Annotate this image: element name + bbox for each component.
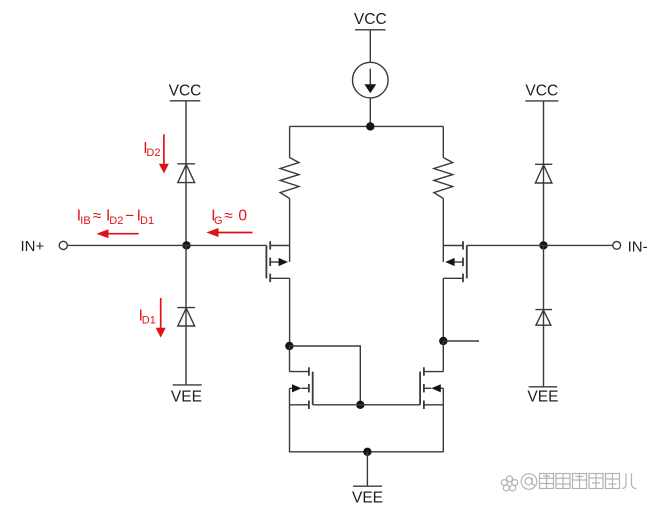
arrow IIB (red, left)	[96, 229, 139, 238]
svg-text:≈: ≈	[224, 208, 233, 225]
wire node to M3 drain	[289, 346, 291, 372]
wire top rail to R1	[289, 126, 291, 157]
svg-text:VCC: VCC	[525, 82, 558, 99]
node junction top rail	[366, 122, 374, 130]
svg-text:VEE: VEE	[527, 388, 558, 405]
svg-text:G: G	[214, 215, 223, 227]
label ID2 current	[143, 140, 160, 159]
wire bottom rail to VEE	[366, 452, 368, 486]
wire M2 drain to M4 drain	[442, 341, 444, 372]
wire bottom rail	[289, 451, 444, 453]
node gate rail junction	[356, 401, 364, 409]
power symbol VEE (right column)	[527, 387, 558, 406]
diode D1	[177, 308, 195, 326]
svg-text:≈: ≈	[93, 208, 102, 225]
wire output tap	[443, 340, 479, 342]
transistor M2 (input PMOS right)	[443, 241, 467, 282]
svg-text:IB: IB	[80, 215, 90, 227]
wire M3 source down	[289, 405, 291, 452]
label IIB equation	[77, 208, 154, 227]
arrow ID1 (red, down)	[156, 298, 166, 338]
diode D3	[535, 310, 552, 326]
transistor M3 (mirror NMOS left)	[290, 367, 313, 409]
wire M4 source down	[442, 405, 444, 452]
transistor M1 (input PMOS left)	[266, 241, 289, 282]
node M2 drain / output	[439, 337, 447, 345]
wire M2 drain down	[442, 278, 444, 341]
wire IN+ terminal to junction	[67, 244, 186, 246]
arrow IG (red, left)	[206, 228, 252, 237]
wire VCC to D2	[185, 101, 187, 246]
wire M1 drain down	[289, 278, 291, 346]
power symbol VCC (left column)	[169, 82, 202, 101]
svg-text:IN+: IN+	[21, 238, 45, 255]
svg-text:VEE: VEE	[352, 490, 383, 507]
svg-text:VCC: VCC	[354, 11, 387, 28]
power symbol VCC (top center)	[354, 11, 387, 30]
svg-text:VCC: VCC	[169, 82, 202, 99]
node IN- terminal	[613, 238, 648, 255]
node M1 drain / M3 drain	[285, 342, 293, 350]
transistor M4 (mirror NMOS right)	[420, 367, 443, 409]
wire VCC bar to current source	[369, 30, 371, 63]
wire top rail	[290, 125, 444, 127]
label IG equation	[211, 208, 247, 227]
resistor R1	[280, 158, 299, 199]
node IN+ terminal	[21, 238, 68, 255]
power symbol VEE (left column)	[171, 385, 202, 405]
wire current source to top rail	[369, 98, 371, 127]
watermark	[501, 474, 636, 492]
wire VCC to D4	[543, 101, 545, 246]
wire IN+ junction to M1 gate	[187, 244, 267, 246]
wire top rail to R2	[442, 126, 444, 157]
wire IN- node to D3	[543, 245, 545, 386]
wire M2 gate to IN- junction	[467, 244, 544, 246]
svg-text:D1: D1	[142, 314, 156, 326]
node bottom rail center	[363, 448, 371, 456]
node IN+ junction	[182, 241, 190, 249]
wire IN- junction to terminal	[544, 244, 613, 246]
svg-text:D2: D2	[146, 147, 160, 159]
svg-text:D2: D2	[109, 215, 123, 227]
resistor R2	[434, 158, 453, 199]
power symbol VCC (right column)	[525, 82, 558, 101]
svg-text:D1: D1	[140, 215, 154, 227]
arrow ID2 (red, down)	[159, 134, 169, 173]
label ID1 current	[139, 308, 156, 327]
diode D4	[535, 164, 552, 183]
svg-text:−: −	[125, 208, 134, 225]
wire R1 to M1 source	[289, 199, 291, 263]
wire R2 to M2 source	[442, 199, 444, 263]
svg-text:VEE: VEE	[171, 388, 202, 405]
diode D2	[177, 164, 195, 183]
power symbol VEE (bottom center)	[352, 486, 383, 507]
current source I1	[353, 62, 389, 98]
svg-text:IN-: IN-	[628, 238, 648, 255]
node IN- junction	[539, 241, 547, 249]
wire gate rail M3-M4	[313, 404, 420, 406]
wire IN+ node to D1	[185, 245, 187, 385]
svg-text:0: 0	[238, 208, 247, 225]
wire diode-connection tap	[289, 346, 360, 405]
